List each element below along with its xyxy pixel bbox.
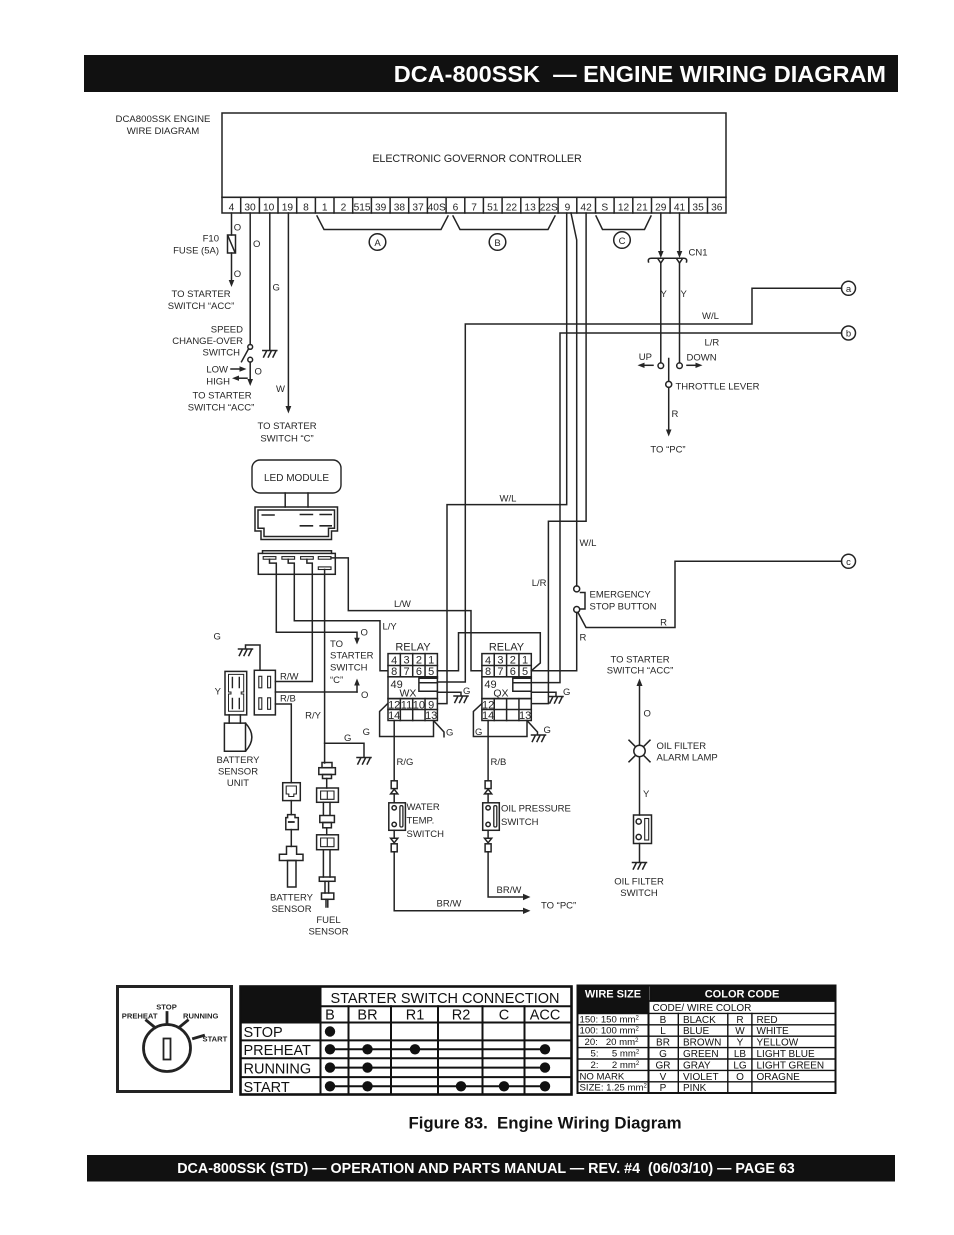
svg-text:GRAY: GRAY xyxy=(683,1060,711,1071)
svg-text:START: START xyxy=(244,1080,290,1096)
svg-text:WX: WX xyxy=(400,688,417,700)
wire xyxy=(290,801,292,815)
svg-text:LIGHT GREEN: LIGHT GREEN xyxy=(757,1060,825,1071)
label: OIL FILTER SWITCH xyxy=(614,877,664,900)
svg-text:ALARM LAMP: ALARM LAMP xyxy=(657,753,718,764)
svg-text:O: O xyxy=(644,709,651,720)
svg-text:STOP: STOP xyxy=(156,1003,177,1012)
svg-text:COLOR CODE: COLOR CODE xyxy=(705,989,780,1001)
relay WX xyxy=(388,642,437,723)
wire W/L: connector a to relay WX xyxy=(437,288,841,682)
svg-text:22: 22 xyxy=(506,202,518,213)
wire BR/W: oil pressure switch to PC w/ arrow xyxy=(488,852,530,900)
wire R/B: battery connector to arrow O xyxy=(275,692,357,705)
svg-text:R: R xyxy=(580,633,587,644)
svg-text:2: 2 xyxy=(416,655,422,667)
wire O: oil filter lamp to starter ACC w/ arrow up xyxy=(637,679,651,746)
svg-text:ORAGNE: ORAGNE xyxy=(757,1072,801,1083)
connection dots and links xyxy=(325,1026,550,1091)
svg-text:39: 39 xyxy=(375,202,387,213)
svg-text:9: 9 xyxy=(565,202,571,213)
svg-text:O: O xyxy=(736,1072,744,1083)
water temp switch xyxy=(389,802,444,840)
wire: terminal 4 to fuse xyxy=(231,213,233,235)
svg-text:4: 4 xyxy=(391,655,397,667)
color code table xyxy=(649,986,836,1095)
svg-text:5: 5 mm2: 5: 5 mm2 xyxy=(591,1049,640,1060)
svg-text:b: b xyxy=(846,329,851,340)
svg-text:CODE/ WIRE COLOR: CODE/ WIRE COLOR xyxy=(653,1003,752,1014)
svg-text:O: O xyxy=(361,628,368,639)
svg-text:7: 7 xyxy=(471,202,477,213)
svg-text:VIOLET: VIOLET xyxy=(683,1072,719,1083)
wire Y: lamp to oil filter switch xyxy=(640,757,651,815)
svg-text:3: 3 xyxy=(403,655,409,667)
wire O: LED plug pin1 to starter switch C w/ arrow xyxy=(270,559,368,644)
svg-text:ELECTRONIC GOVERNOR CONTROLLER: ELECTRONIC GOVERNOR CONTROLLER xyxy=(372,153,582,165)
svg-text:O: O xyxy=(361,690,368,701)
svg-text:A: A xyxy=(374,238,381,249)
svg-text:S: S xyxy=(601,202,608,213)
svg-text:13: 13 xyxy=(524,202,536,213)
wire/ground: oil filter switch to ground xyxy=(633,844,647,870)
oil pressure switch xyxy=(483,803,571,831)
svg-text:LOW: LOW xyxy=(206,365,228,376)
svg-text:2: 2 xyxy=(341,202,347,213)
wire R/B: relay QX pin14 to oil pressure switch xyxy=(488,721,506,839)
fuse F10 (5A) xyxy=(173,234,235,257)
svg-text:1: 1 xyxy=(522,655,528,667)
svg-text:V: V xyxy=(660,1072,667,1083)
controller U1: ELECTRONIC GOVERNOR CONTROLLER xyxy=(222,113,726,197)
svg-text:C: C xyxy=(499,1008,509,1024)
svg-text:Figure 83. Engine Wiring Diag: Figure 83. Engine Wiring Diagram xyxy=(408,1114,681,1133)
group brace B xyxy=(453,216,555,250)
wire/ground: fuel sensor G branch xyxy=(325,733,371,764)
wire xyxy=(326,828,328,835)
label: TO STARTER SWITCH ACC (fuse) xyxy=(168,289,235,312)
svg-text:RUNNING: RUNNING xyxy=(183,1012,219,1021)
wire: terminal 10 to ground xyxy=(269,213,271,350)
svg-text:TO STARTER: TO STARTER xyxy=(610,655,669,666)
wire: relay QX G loop xyxy=(473,704,527,738)
svg-text:PINK: PINK xyxy=(683,1083,707,1094)
svg-text:BR: BR xyxy=(357,1008,377,1024)
title bar xyxy=(84,55,898,92)
svg-text:O: O xyxy=(253,239,260,250)
wire: terminal 19 to starter switch C w/ arrow xyxy=(276,213,291,414)
svg-text:TO STARTER: TO STARTER xyxy=(257,421,316,432)
wire: LED module stubs xyxy=(285,493,308,507)
svg-text:TO “PC”: TO “PC” xyxy=(541,901,576,912)
svg-text:G: G xyxy=(659,1049,667,1060)
svg-text:SWITCH “C”: SWITCH “C” xyxy=(260,434,313,445)
svg-text:G: G xyxy=(563,687,570,698)
svg-text:BLACK: BLACK xyxy=(683,1015,716,1026)
svg-text:L/R: L/R xyxy=(532,578,547,589)
svg-text:SWITCH: SWITCH xyxy=(407,829,445,840)
svg-text:BLUE: BLUE xyxy=(683,1026,709,1037)
wire: relay QX pin13 to ground xyxy=(527,721,551,742)
svg-text:QX: QX xyxy=(493,688,508,700)
wire pin3: LED plug to battery connector (R/W) xyxy=(275,559,312,681)
svg-text:WHITE: WHITE xyxy=(757,1026,790,1037)
wire: terminal 30 down to speed switch xyxy=(249,213,251,345)
svg-text:OIL PRESSURE: OIL PRESSURE xyxy=(501,804,571,815)
svg-text:4: 4 xyxy=(229,202,235,213)
connector: fuel sensor plug 1 xyxy=(317,788,339,802)
svg-text:R/W: R/W xyxy=(280,672,299,683)
svg-text:29: 29 xyxy=(655,202,667,213)
svg-text:START: START xyxy=(203,1035,228,1044)
wire: battery connector to battery sensor chain xyxy=(275,704,291,783)
connector: water temp plug xyxy=(391,781,398,794)
svg-text:L/W: L/W xyxy=(394,599,411,610)
svg-text:YELLOW: YELLOW xyxy=(757,1038,799,1049)
svg-text:RUNNING: RUNNING xyxy=(244,1062,312,1078)
svg-text:SENSOR: SENSOR xyxy=(271,904,311,915)
battery sensor unit body xyxy=(217,715,261,789)
svg-text:37: 37 xyxy=(412,202,424,213)
svg-text:RELAY: RELAY xyxy=(489,642,525,654)
svg-text:BATTERY: BATTERY xyxy=(217,755,261,766)
svg-text:150: 150 mm2: 150: 150 mm2 xyxy=(580,1014,640,1025)
throttle lever UP/DOWN contacts xyxy=(638,352,717,369)
svg-text:BROWN: BROWN xyxy=(683,1038,721,1049)
svg-text:20: 20 mm2: 20: 20 mm2 xyxy=(585,1037,640,1048)
wire: terminal 42 to relay QX pin9 xyxy=(531,213,586,704)
wire BR/W: water temp switch to PC w/ arrow xyxy=(394,852,530,914)
label: TO STARTER SWITCH C (center) xyxy=(330,639,374,686)
connector: LED socket (double outline) xyxy=(255,507,338,540)
svg-text:SENSOR: SENSOR xyxy=(218,767,258,778)
group brace C xyxy=(596,216,651,248)
wire L/Y: LED plug pin2 to relay WX pin8 xyxy=(288,559,397,671)
svg-text:13: 13 xyxy=(519,710,531,722)
svg-text:L: L xyxy=(660,1026,666,1037)
svg-text:UNIT: UNIT xyxy=(227,778,249,789)
wire xyxy=(290,830,292,847)
svg-text:STARTER SWITCH CONNECTION: STARTER SWITCH CONNECTION xyxy=(330,991,559,1007)
wire: relay WX G loop xyxy=(363,704,434,738)
svg-text:19: 19 xyxy=(282,202,294,213)
svg-text:BR: BR xyxy=(656,1038,670,1049)
svg-text:L/Y: L/Y xyxy=(383,622,398,633)
svg-text:Y: Y xyxy=(215,687,222,698)
wire R: emergency stop to relay QX pin5 xyxy=(531,613,586,671)
svg-text:O: O xyxy=(234,223,241,234)
svg-text:STOP BUTTON: STOP BUTTON xyxy=(590,602,657,613)
battery sensor xyxy=(270,846,314,915)
svg-text:STARTER: STARTER xyxy=(330,651,374,662)
svg-text:36: 36 xyxy=(711,202,723,213)
svg-text:WATER: WATER xyxy=(407,802,440,813)
footer bar xyxy=(87,1155,895,1182)
svg-text:R/B: R/B xyxy=(280,694,296,705)
svg-text:13: 13 xyxy=(425,710,437,722)
svg-text:4: 4 xyxy=(485,655,491,667)
svg-text:R: R xyxy=(660,618,667,629)
svg-text:R1: R1 xyxy=(406,1008,425,1024)
svg-text:TEMP.: TEMP. xyxy=(407,816,435,827)
svg-text:B: B xyxy=(494,238,500,249)
svg-text:Y: Y xyxy=(643,789,650,800)
connector: 4-pin battery connector xyxy=(254,670,275,715)
svg-text:100: 100 mm2: 100: 100 mm2 xyxy=(580,1026,640,1037)
connector a xyxy=(842,281,856,295)
svg-text:SWITCH: SWITCH xyxy=(203,348,241,359)
connector: fuel sensor plug 2 xyxy=(317,835,339,850)
svg-text:40S: 40S xyxy=(428,202,446,213)
svg-text:RELAY: RELAY xyxy=(395,642,431,654)
svg-text:11: 11 xyxy=(401,699,412,711)
svg-text:BR/W: BR/W xyxy=(437,899,462,910)
wire R: emergency stop to connector c xyxy=(578,561,842,628)
svg-text:LB: LB xyxy=(734,1049,747,1060)
svg-text:OIL FILTER: OIL FILTER xyxy=(614,877,664,888)
svg-text:SWITCH “ACC”: SWITCH “ACC” xyxy=(168,301,235,312)
fuel sensor bolt xyxy=(319,763,336,779)
relay QX xyxy=(482,642,531,723)
svg-text:SWITCH “ACC”: SWITCH “ACC” xyxy=(188,403,255,414)
svg-text:HIGH: HIGH xyxy=(206,377,230,388)
svg-text:PREHEAT: PREHEAT xyxy=(244,1043,312,1059)
svg-text:G: G xyxy=(214,632,221,643)
connector: oil pressure plug xyxy=(485,781,492,794)
svg-text:1: 1 xyxy=(428,655,434,667)
wire R/G: relay WX pin14 to water temp switch xyxy=(394,721,413,839)
svg-text:CHANGE-OVER: CHANGE-OVER xyxy=(172,336,243,347)
svg-text:42: 42 xyxy=(580,202,592,213)
svg-text:8: 8 xyxy=(303,202,309,213)
svg-text:R/Y: R/Y xyxy=(305,711,322,722)
svg-text:SWITCH: SWITCH xyxy=(501,817,539,828)
svg-text:Y: Y xyxy=(737,1038,744,1049)
LED module xyxy=(252,460,341,493)
svg-text:FUEL: FUEL xyxy=(316,915,340,926)
svg-text:OIL FILTER: OIL FILTER xyxy=(657,741,707,752)
svg-text:DCA-800SSK (STD) — OPERATION A: DCA-800SSK (STD) — OPERATION AND PARTS M… xyxy=(177,1161,795,1177)
svg-text:NO MARK: NO MARK xyxy=(580,1071,625,1082)
svg-text:12: 12 xyxy=(618,202,630,213)
svg-text:2: 2 mm2: 2: 2 mm2 xyxy=(591,1060,640,1071)
svg-text:c: c xyxy=(846,557,851,568)
svg-text:2: 2 xyxy=(510,655,516,667)
svg-text:O: O xyxy=(234,269,241,280)
svg-text:P: P xyxy=(660,1083,667,1094)
svg-text:SWITCH: SWITCH xyxy=(620,888,658,899)
svg-text:G: G xyxy=(273,283,280,294)
label: TO STARTER SWITCH C xyxy=(257,421,316,445)
svg-text:CN1: CN1 xyxy=(689,248,708,259)
oil filter switch xyxy=(634,815,652,844)
svg-text:F10: F10 xyxy=(203,234,219,245)
wire: relay QX to ground (right) xyxy=(531,687,570,703)
wire size table xyxy=(578,986,649,1094)
wire/ground: battery connector G xyxy=(214,632,261,671)
connector b xyxy=(842,326,856,340)
svg-text:R/B: R/B xyxy=(491,757,507,768)
svg-text:DCA800SSK ENGINE: DCA800SSK ENGINE xyxy=(116,114,211,125)
starter switch dial box xyxy=(118,987,232,1092)
svg-text:30: 30 xyxy=(244,202,256,213)
svg-text:Y: Y xyxy=(681,289,688,300)
svg-text:R/G: R/G xyxy=(397,757,414,768)
svg-text:C: C xyxy=(619,236,626,247)
throttle lever pivot xyxy=(666,359,760,393)
connector: water temp plug lower xyxy=(391,838,398,852)
svg-text:RED: RED xyxy=(757,1015,778,1026)
wire: terminal 41 to CN1 w/ arrow xyxy=(677,213,683,258)
svg-text:6: 6 xyxy=(453,202,459,213)
svg-text:10: 10 xyxy=(263,202,275,213)
svg-text:DCA-800SSK — ENGINE WIRING DI: DCA-800SSK — ENGINE WIRING DIAGRAM xyxy=(394,61,886,87)
label: TO STARTER SWITCH ACC (speed switch) xyxy=(188,391,255,414)
wire R/Y: LED plug pin4 to fuel sensor xyxy=(305,570,324,764)
svg-text:WIRE SIZE: WIRE SIZE xyxy=(585,989,641,1001)
svg-text:DOWN: DOWN xyxy=(687,353,717,364)
terminal strip of U1 (27 terminals) xyxy=(222,197,726,213)
connector CN1 xyxy=(648,248,707,264)
svg-text:TO STARTER: TO STARTER xyxy=(192,391,251,402)
connector c xyxy=(842,554,856,568)
svg-text:W: W xyxy=(276,384,285,395)
caption: DCA800SSK ENGINE WIRE DIAGRAM xyxy=(116,114,211,137)
label LOW / HIGH with arrows xyxy=(206,365,247,388)
wire O: R/B line arrow up to starter switch C xyxy=(354,679,368,702)
wire: throttle lever to PC w/ arrow (R) xyxy=(666,387,679,436)
ground (terminal 10) xyxy=(263,351,277,358)
svg-text:W/L: W/L xyxy=(580,538,597,549)
svg-text:a: a xyxy=(846,284,852,295)
svg-text:B: B xyxy=(660,1015,667,1026)
wire W/L: terminal 9 branch to emergency stop xyxy=(571,213,596,586)
svg-text:G: G xyxy=(446,728,453,739)
fuel sensor probe xyxy=(308,850,348,938)
svg-text:51: 51 xyxy=(487,202,499,213)
label: SPEED CHANGE-OVER SWITCH xyxy=(172,325,243,359)
svg-text:W/L: W/L xyxy=(500,494,517,505)
wire: CN1 to throttle contacts (Y, Y) xyxy=(661,263,688,363)
svg-text:GR: GR xyxy=(656,1060,671,1071)
svg-text:LG: LG xyxy=(733,1060,747,1071)
svg-text:ACC: ACC xyxy=(530,1008,561,1024)
svg-text:BR/W: BR/W xyxy=(497,885,522,896)
svg-text:O: O xyxy=(255,367,262,378)
svg-text:1: 1 xyxy=(322,202,328,213)
svg-text:WIRE DIAGRAM: WIRE DIAGRAM xyxy=(127,126,200,137)
svg-text:G: G xyxy=(363,727,370,738)
svg-text:LIGHT BLUE: LIGHT BLUE xyxy=(757,1049,815,1060)
svg-text:38: 38 xyxy=(394,202,406,213)
svg-text:W: W xyxy=(735,1026,745,1037)
wire L/W: LED plug to relay QX pin8 xyxy=(331,558,482,671)
svg-text:R2: R2 xyxy=(452,1008,471,1024)
svg-text:TO: TO xyxy=(330,639,343,650)
svg-text:SWITCH “ACC”: SWITCH “ACC” xyxy=(607,666,674,677)
svg-text:R: R xyxy=(736,1015,743,1026)
emergency stop button SW xyxy=(574,586,657,613)
wire W/L: terminal 9 to relay WX pin9 xyxy=(437,213,566,704)
svg-text:R: R xyxy=(672,409,679,420)
svg-text:“C”: “C” xyxy=(330,675,343,686)
svg-text:L/R: L/R xyxy=(705,338,720,349)
svg-text:SWITCH: SWITCH xyxy=(330,663,368,674)
svg-text:21: 21 xyxy=(636,202,648,213)
svg-text:BATTERY: BATTERY xyxy=(270,893,314,904)
label: TO STARTER SWITCH ACC (oil filter) xyxy=(607,655,674,677)
svg-text:W/L: W/L xyxy=(702,311,719,322)
connector: battery sensor plug 1 xyxy=(283,783,301,801)
svg-text:PREHEAT: PREHEAT xyxy=(122,1012,158,1021)
wire L/R: connector b to relay QX xyxy=(531,333,841,683)
svg-text:3: 3 xyxy=(497,655,503,667)
wire: relay WX pin13 to G xyxy=(434,721,454,739)
svg-text:FUSE (5A): FUSE (5A) xyxy=(173,246,219,257)
svg-text:THROTTLE LEVER: THROTTLE LEVER xyxy=(676,382,760,393)
svg-text:35: 35 xyxy=(692,202,704,213)
wire: fuse to starter switch ACC w/ arrow xyxy=(229,253,241,287)
svg-text:10: 10 xyxy=(413,699,425,711)
svg-text:B: B xyxy=(325,1008,335,1024)
svg-text:EMERGENCY: EMERGENCY xyxy=(590,590,652,601)
svg-text:SIZE: 1.25 mm2: SIZE: 1.25 mm2 xyxy=(580,1083,648,1094)
svg-text:G: G xyxy=(344,733,351,744)
svg-text:41: 41 xyxy=(674,202,686,213)
wire xyxy=(326,779,328,789)
wire: terminal 29 to CN1 w/ arrow xyxy=(658,213,664,258)
group brace A xyxy=(317,216,448,250)
svg-text:UP: UP xyxy=(639,352,652,363)
battery sensor unit connector xyxy=(215,671,247,715)
svg-text:SPEED: SPEED xyxy=(211,325,243,336)
svg-text:TO “PC”: TO “PC” xyxy=(650,445,685,456)
wire: speed switch to ACC w/ arrow xyxy=(247,362,261,386)
svg-text:GREEN: GREEN xyxy=(683,1049,719,1060)
oil filter alarm lamp DS1 xyxy=(629,740,718,763)
svg-text:SENSOR: SENSOR xyxy=(308,927,348,938)
starter switch connection table xyxy=(241,987,572,1097)
svg-text:LED MODULE: LED MODULE xyxy=(264,473,329,484)
svg-text:22S: 22S xyxy=(540,202,558,213)
wire: relay WX to ground (right) xyxy=(437,686,470,703)
connector: LED harness plug xyxy=(258,551,335,575)
svg-text:Y: Y xyxy=(661,289,668,300)
svg-text:TO STARTER: TO STARTER xyxy=(171,289,230,300)
wire riser: relay WX pin5 to relay QX pin1 xyxy=(437,633,540,671)
connector: oil pressure plug lower xyxy=(485,838,492,852)
svg-text:G: G xyxy=(475,727,482,738)
svg-text:STOP: STOP xyxy=(244,1025,283,1041)
speed change-over switch S1 xyxy=(242,345,253,363)
svg-text:515: 515 xyxy=(354,202,371,213)
connector: battery sensor plug 2 xyxy=(286,815,299,830)
fuel sensor stem/nut xyxy=(320,802,335,828)
